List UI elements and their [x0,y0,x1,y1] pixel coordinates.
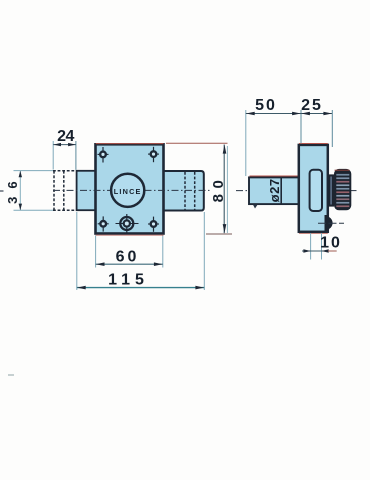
bolt slot side view [310,170,322,211]
knurled knob side view [334,169,351,210]
centerline front view [53,189,211,191]
dimension 80 [166,143,232,234]
dimension 50 [246,97,332,176]
lock body front view [96,144,164,236]
svg-text:50: 50 [255,97,277,114]
cylinder stub (solid) front view [77,171,96,210]
svg-text:115: 115 [108,272,149,289]
stray scan mark left margin [8,374,14,376]
hub (cylinder boss) front view [116,214,139,234]
svg-text:36: 36 [5,173,20,203]
lock body side view [299,144,328,234]
hidden cylinder (dashed) front view [53,171,77,210]
dimension 115 [77,212,205,290]
diameter label ø27 [267,178,282,202]
svg-text:25: 25 [301,97,323,114]
svg-text:ø27: ø27 [267,178,282,202]
dimension 36 [5,171,53,211]
cylinder side view [249,176,299,209]
screw hole top-left [98,147,109,163]
dimension 25 [301,97,332,147]
svg-text:80: 80 [210,175,227,203]
centerline tick at left page edge [0,190,4,192]
svg-text:LINCE: LINCE [114,187,142,196]
svg-text:10: 10 [320,235,342,252]
deadbolt button side view [318,215,344,231]
svg-text:24: 24 [57,128,74,145]
dimension 10 [302,233,342,260]
dimension 60 [96,236,163,268]
LINCE logo circle [111,174,144,207]
knob flange [328,174,334,206]
screw hole bottom-right [148,217,159,232]
screw hole top-right [148,147,159,162]
screw hole bottom-left [98,216,109,231]
dimension 24 [53,128,76,170]
bolt extension front view [164,171,204,211]
side view centerline [236,190,357,192]
svg-text:60: 60 [116,249,140,266]
